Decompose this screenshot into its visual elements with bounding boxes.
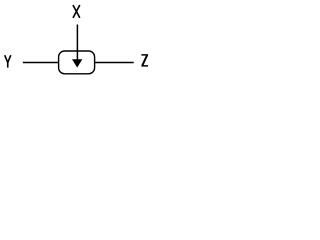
- node Z label: [141, 54, 148, 67]
- arrowhead into block: [72, 59, 82, 67]
- wire from X down into block: [76, 25, 78, 62]
- wire to Z: [95, 62, 134, 64]
- node Y label: [5, 55, 11, 67]
- node X label: [73, 5, 80, 18]
- wire to Y: [23, 62, 59, 64]
- limiter block body U1: [59, 51, 95, 74]
